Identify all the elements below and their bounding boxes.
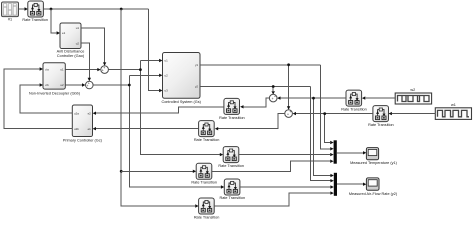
junction at (273.2,86.5) xyxy=(272,85,275,88)
junction at (121,9) xyxy=(120,8,123,11)
junction at (313.5,98.1) xyxy=(312,97,315,100)
source w1 xyxy=(435,108,471,120)
svg-text:u1: u1 xyxy=(60,67,64,71)
svg-text:u2: u2 xyxy=(76,41,80,45)
wire: PC out2 to decoupler u'a xyxy=(4,69,72,129)
wire: ADC u1 to sum S1 top xyxy=(81,28,105,62)
svg-text:u3: u3 xyxy=(165,89,169,93)
sum S3 xyxy=(269,94,277,102)
wire: branch to ADC e1 xyxy=(51,9,57,33)
sum S2 xyxy=(86,81,94,89)
svg-text:y1: y1 xyxy=(195,63,198,67)
rate transition RT7 xyxy=(196,163,212,179)
svg-text:Rate Transition: Rate Transition xyxy=(194,215,220,219)
svg-text:e2: e2 xyxy=(88,111,92,115)
wire: reference down-bus x=121 xyxy=(121,9,195,206)
svg-text:Rate Transition: Rate Transition xyxy=(194,138,220,142)
rate transition RT2 xyxy=(224,98,240,114)
block U3 Non-Inverted Decoupler (Gbb) xyxy=(43,63,65,89)
wire: RT5 output to sum S4 and mux M1 xyxy=(296,114,373,143)
svg-text:Non-Inverted Decoupler (Gbb): Non-Inverted Decoupler (Gbb) xyxy=(29,92,81,96)
svg-text:e1: e1 xyxy=(88,127,92,131)
wire: RT6 output to mux M1 in3 xyxy=(239,154,330,156)
junction at (324.7,113.6) xyxy=(323,112,326,115)
svg-text:y2: y2 xyxy=(195,85,198,89)
rate transition RT6 xyxy=(223,147,239,163)
svg-text:Rate Transition: Rate Transition xyxy=(22,18,48,22)
wire: RT3 output to PC input 2 xyxy=(96,128,199,130)
wire: ADC u2 to sum S2 top xyxy=(81,43,89,78)
svg-text:u2a: u2a xyxy=(74,111,79,115)
wire: RT4 output to sum S3 and mux M2 xyxy=(281,98,347,175)
svg-text:u2: u2 xyxy=(60,83,64,87)
rate transition RT8 xyxy=(224,179,240,195)
svg-text:u'b: u'b xyxy=(45,83,49,87)
svg-text:+: + xyxy=(274,94,276,98)
wire: CS y2 to sum S3 top and mux M2 xyxy=(200,87,330,181)
wire: decoupler u1 to sum S1 xyxy=(65,69,97,71)
wire: RT2 output to PC input 1 xyxy=(96,107,224,113)
wire: sum S2 output to CS u2 and down-bus xyxy=(93,75,221,187)
wire: sum S4 output to RT3 xyxy=(218,114,285,129)
svg-text:+: + xyxy=(287,112,289,116)
svg-text:Rate Transition: Rate Transition xyxy=(218,164,244,168)
wire: sum S3 output to RT2 xyxy=(244,98,270,107)
block U4 Primary Controller (Gc) xyxy=(72,105,92,137)
svg-text:Controller (Gao): Controller (Gao) xyxy=(57,54,85,58)
svg-text:u1: u1 xyxy=(76,26,80,30)
svg-text:w2: w2 xyxy=(410,88,415,92)
wire: PC out1 to decoupler u'b xyxy=(20,85,73,113)
svg-text:Rate Transition: Rate Transition xyxy=(368,123,394,127)
svg-text:+: + xyxy=(289,110,291,114)
signal builder #1 xyxy=(2,2,19,17)
svg-text:Measured Air-Flow Rate (y2): Measured Air-Flow Rate (y2) xyxy=(349,192,398,196)
svg-text:e1: e1 xyxy=(62,31,66,35)
svg-text:u2b: u2b xyxy=(74,127,79,131)
wire: RT8 output to mux M2 in3 xyxy=(240,186,331,188)
junction at (129,85) xyxy=(128,84,131,87)
svg-text:+: + xyxy=(272,97,274,101)
rate transition RT3 xyxy=(199,121,215,137)
junction at (121,171) xyxy=(120,170,123,173)
svg-text:u'a: u'a xyxy=(45,67,49,71)
rate transition RT1 xyxy=(28,1,44,17)
wire: RT9 output to mux M2 in4 xyxy=(214,193,330,206)
svg-text:u2: u2 xyxy=(165,74,169,78)
svg-text:Controlled System (Gs): Controlled System (Gs) xyxy=(161,100,201,104)
svg-text:+: + xyxy=(103,66,105,70)
svg-text:w1: w1 xyxy=(451,103,456,107)
svg-text:#1: #1 xyxy=(8,18,12,22)
svg-text:+: + xyxy=(88,81,90,85)
wire: decoupler u2 to sum S2 xyxy=(65,84,82,86)
wire: RT7 output to mux M1 in4 xyxy=(212,161,330,171)
svg-text:u1: u1 xyxy=(165,59,169,63)
junction at (51,9) xyxy=(50,8,53,11)
wire: mux M2 to scope2 xyxy=(337,183,363,185)
wire: w1 to RT5 xyxy=(392,113,435,115)
svg-text:Rate Transition: Rate Transition xyxy=(220,196,246,200)
block U1 Controlled System (Gs) xyxy=(163,53,201,99)
wire: #1 to Rate Transition xyxy=(19,8,25,10)
wire: CS y1 to sum S4 top and mux M1 xyxy=(200,65,330,149)
sum S4 xyxy=(285,110,293,118)
svg-text:Primary Controller (Gc): Primary Controller (Gc) xyxy=(63,138,103,142)
svg-text:Measured Temperature (y1): Measured Temperature (y1) xyxy=(350,161,398,165)
svg-text:Rate Transition: Rate Transition xyxy=(341,108,367,112)
rate transition RT9 xyxy=(199,198,215,214)
wire: mux M1 to scope1 xyxy=(337,152,363,154)
rate transition RT5 xyxy=(373,106,389,122)
scope Measured Temperature (y1) xyxy=(366,148,378,160)
block U2 Anti Disturbance Controller (Gao) xyxy=(60,23,81,49)
mux M1 xyxy=(334,140,337,163)
wire: w2 to RT4 xyxy=(365,97,395,99)
junction at (288.6,64.8) xyxy=(287,63,290,66)
svg-text:Rate Transition: Rate Transition xyxy=(219,116,245,120)
svg-text:Rate Transition: Rate Transition xyxy=(191,181,217,185)
wire: reference to CS u3 xyxy=(149,9,159,91)
rate transition RT4 xyxy=(346,90,362,106)
wire: sum S1 output to CS u1 and down-bus xyxy=(108,61,219,155)
wire: branch to RT bottom2 xyxy=(121,170,193,172)
mux M2 xyxy=(334,173,337,196)
wire: RT1 output to reference bus (node R) xyxy=(43,8,148,10)
sum S1 xyxy=(101,66,109,74)
junction at (140,70) xyxy=(139,68,142,71)
scope Measured Air-Flow Rate (y2) xyxy=(366,178,379,190)
source w2 xyxy=(395,93,431,104)
